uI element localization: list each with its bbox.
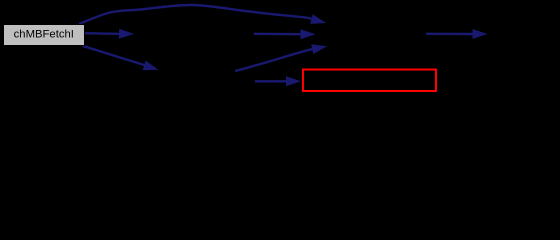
svg-text:chMBFetchI: chMBFetchI [14,28,74,40]
